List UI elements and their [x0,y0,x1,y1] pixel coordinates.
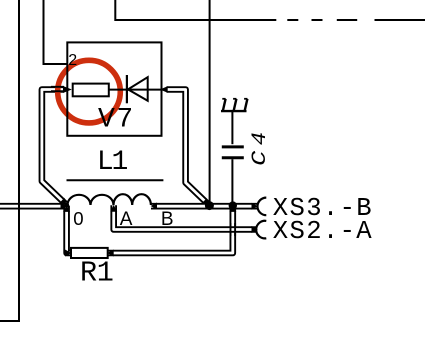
left border vertical wire [0,0,19,321]
net label E (rotated) [221,99,247,111]
svg-text:C: C [249,151,272,166]
pin number 2 [68,52,77,69]
wire tip at junction dot 2 [229,205,236,212]
label R1 [80,256,114,289]
wire entering from left edge to coil terminal 0 [0,203,66,210]
wire from V7 pin1 to coil terminal 0 (left hollow wire) [42,90,67,205]
svg-text:L1: L1 [97,147,128,178]
terminal label 0 [73,208,83,229]
diode V7 cathode bar [126,75,128,103]
svg-text:XS2.-A: XS2.-A [273,217,373,246]
junction dot 2 [229,201,237,209]
top bus wire with corner [115,0,276,20]
inductor L1 winding arcs [68,194,151,205]
diode V7 triangle [128,77,148,101]
diode V7 wire through triangle [128,89,148,91]
capacitor C4 plates [222,147,244,158]
label V7 [98,104,133,135]
terminal label A [120,209,133,230]
wire tip at R1 left [65,250,72,257]
wire from coil terminal 0 down to resistor R1 [67,206,71,253]
wire tip at coil terminal 0 from left [61,203,67,210]
svg-text:B: B [161,209,174,230]
socket contact XS2 [256,221,266,239]
wire tip at socket XS2 [252,226,258,233]
net label XS2.-A [273,217,373,246]
wire from R1 right side up to junction dot 2 [108,206,233,253]
capacitor C4 top lead [231,112,233,144]
svg-text:4: 4 [249,132,272,146]
wire from V7 cathode side to junction dot (right hollow wire) [167,90,210,206]
wire from coil terminal B to socket XS3.-B [151,203,258,210]
component box U (V7 enclosure) [67,42,161,135]
label L1 [97,147,128,178]
wire tip at junction dot 1 [202,198,210,205]
resistor R1 [71,248,108,258]
inductor L1 core line [67,179,164,181]
wire tip at coil terminal B [151,203,157,210]
capacitor C4 bottom lead [231,159,233,205]
junction blob at coil terminal 0 [64,203,69,208]
net label XS3.-B [273,194,372,223]
wire tip at coil terminal 0 from above [60,198,67,205]
red annotation circle [58,60,121,123]
crossing fix: left wire lines over red circle [51,87,64,91]
svg-text:2: 2 [68,52,77,69]
wire from coil tap A to socket XS2.-A [114,205,258,229]
wire tip at V7 box left [63,86,72,93]
terminal label B [161,209,174,230]
wire to V7 pin 2 [44,0,68,64]
svg-text:V7: V7 [98,104,133,135]
svg-text:0: 0 [73,208,83,229]
wire tip at R1 right [107,250,114,257]
wire tip at coil terminal 0 downward wire [63,205,70,212]
dashed continuation of top bus [287,19,425,21]
resistor element inside V7 [73,84,109,97]
socket contact XS3 [257,198,266,216]
vertical wire from top to junction dot 1 [209,0,211,205]
wire tip at coil tap A [110,205,117,212]
label C4 (rotated) [249,132,272,166]
wire tip at V7 box right [160,86,168,93]
junction dot 1 [205,201,214,210]
wire tip at socket XS3 [252,203,258,210]
crossing fix: R1 wire vertical lines through XS2 wire [231,223,236,236]
wire resistor to diode inside V7 [73,89,162,91]
svg-text:R1: R1 [80,256,114,289]
svg-text:A: A [120,209,133,230]
